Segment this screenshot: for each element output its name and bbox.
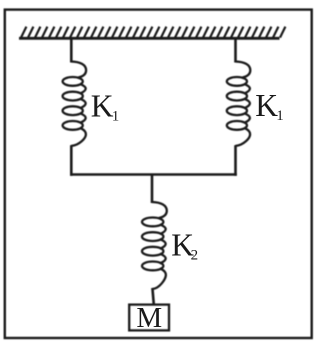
wire <box>70 38 73 62</box>
svg-text:K: K <box>255 88 278 123</box>
wire <box>234 38 237 62</box>
svg-text:K: K <box>91 88 114 123</box>
wire <box>70 173 237 176</box>
svg-text:1: 1 <box>276 108 284 124</box>
wire <box>234 145 237 176</box>
spring K1 <box>63 62 87 146</box>
spring K2 <box>142 202 167 289</box>
wire <box>70 145 73 176</box>
mass M <box>129 305 169 331</box>
spring K1 <box>227 62 251 146</box>
svg-text:1: 1 <box>112 109 120 125</box>
wire <box>151 175 154 204</box>
svg-text:2: 2 <box>191 248 199 264</box>
wire <box>152 288 153 305</box>
svg-text:M: M <box>136 302 162 334</box>
ceiling <box>19 27 285 39</box>
